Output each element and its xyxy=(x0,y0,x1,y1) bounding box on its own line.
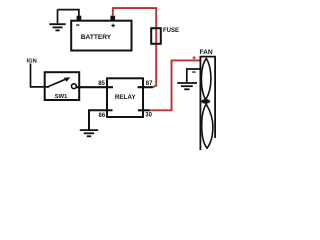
label FAN xyxy=(200,49,213,56)
label 85 xyxy=(98,81,105,87)
ground G1 top-left xyxy=(49,10,65,31)
fan M1 shroud xyxy=(200,56,216,150)
wire battery positive through fuse to relay pin 87 (red) xyxy=(113,8,156,87)
relay pin 87 stub xyxy=(138,86,153,88)
label 30 xyxy=(145,112,152,118)
ground G2 below relay xyxy=(80,130,98,136)
label IGN xyxy=(27,58,37,64)
svg-text:FAN: FAN xyxy=(200,49,213,56)
label FUSE xyxy=(163,28,179,34)
wire switch to relay pin 85 xyxy=(76,86,113,88)
switch SW1 xyxy=(45,72,79,100)
svg-text:IGN: IGN xyxy=(27,58,37,64)
fan bottom blade xyxy=(202,104,213,148)
fan negative mark (minus) xyxy=(192,71,195,72)
ground G3 near fan xyxy=(177,83,197,89)
svg-text:86: 86 xyxy=(99,113,106,119)
wire relay pin 30 to fan (red) xyxy=(150,60,201,110)
svg-text:FUSE: FUSE xyxy=(163,28,179,34)
fan top blade xyxy=(201,59,211,100)
wire fan to ground xyxy=(187,69,200,82)
wire battery negative to ground xyxy=(58,10,79,17)
fan hub xyxy=(201,99,210,104)
label 86 xyxy=(99,113,106,119)
relay pin 30 stub xyxy=(138,109,150,111)
battery positive terminal xyxy=(110,16,115,21)
fuse F1 xyxy=(151,28,161,44)
svg-text:87: 87 xyxy=(146,81,153,87)
svg-text:85: 85 xyxy=(98,81,105,87)
svg-text:BATTERY: BATTERY xyxy=(81,34,112,41)
wire relay pin 86 to ground xyxy=(89,110,113,129)
svg-text:SW1: SW1 xyxy=(55,94,68,100)
battery negative terminal xyxy=(77,16,82,21)
label 87 xyxy=(146,81,153,87)
relay K1 xyxy=(107,78,143,117)
svg-text:30: 30 xyxy=(145,112,152,118)
battery B1 xyxy=(71,21,131,51)
fan positive mark (red plus) xyxy=(193,56,196,59)
wire IGN to switch xyxy=(31,64,50,87)
svg-text:RELAY: RELAY xyxy=(115,94,137,101)
